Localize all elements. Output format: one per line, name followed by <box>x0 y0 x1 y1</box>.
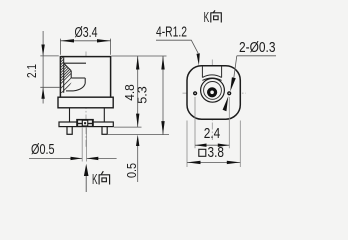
svg-text:2.1: 2.1 <box>24 64 39 78</box>
contact curve <box>74 83 86 91</box>
chamber floor line <box>71 77 85 79</box>
dim 5.3 arrows <box>161 56 164 70</box>
svg-text:2.4: 2.4 <box>204 125 221 142</box>
dim 2.4 arrows <box>195 144 207 147</box>
funnel slope <box>64 63 71 71</box>
svg-text:5.3: 5.3 <box>134 86 149 104</box>
dim 3.8 extension lines <box>187 121 240 168</box>
svg-text:3.8: 3.8 <box>208 144 225 161</box>
dim Ø0.5 arrows <box>71 157 83 160</box>
cavity bottom lip <box>66 90 74 92</box>
body outline (cylinder section) <box>60 57 110 98</box>
inner wall line <box>63 57 65 93</box>
dim 0.5 right arrow and line <box>137 146 139 182</box>
funnel arc upper <box>202 75 221 78</box>
throat wall <box>70 71 72 78</box>
arrow 4-R1.2 <box>197 53 200 65</box>
dim 4.8 line <box>137 56 139 127</box>
dim 2.1 line <box>40 31 59 104</box>
dim 3.8 square symbol <box>199 149 206 156</box>
neck left line <box>69 108 71 122</box>
centerline vertical (K view) <box>211 60 213 141</box>
centerline vertical (left view axis) <box>85 52 87 148</box>
cavity top floor line <box>64 62 86 64</box>
dim 2.4 extension lines <box>195 97 229 148</box>
centerline horizontal (K view) <box>183 92 247 94</box>
svg-text:0.5: 0.5 <box>124 163 139 178</box>
svg-text:4-R1.2: 4-R1.2 <box>156 23 187 40</box>
left pin <box>67 127 72 135</box>
base bar <box>59 122 113 127</box>
rounded square outline <box>187 66 240 119</box>
dim 3.8 line <box>187 161 240 163</box>
middle circle <box>204 82 222 100</box>
glyph 向 (bottom) <box>99 171 110 184</box>
svg-text:Ø3.4: Ø3.4 <box>75 24 98 41</box>
arrow 2-Ø0.3 lower <box>223 96 229 111</box>
K direction arrow <box>85 176 87 192</box>
slot right line <box>221 66 223 77</box>
leader 4-R1.2 <box>156 40 198 53</box>
neck right line <box>103 108 105 122</box>
dim 3.8 arrows <box>187 161 201 164</box>
dim Ø0.5 extension lines <box>82 128 86 162</box>
svg-text:K: K <box>204 9 210 26</box>
slot left line <box>201 66 203 77</box>
flange <box>58 97 113 108</box>
dim Ø0.5 line <box>29 157 117 159</box>
center contact ring <box>209 89 216 96</box>
arrow 2-Ø0.3 upper <box>230 77 236 91</box>
dim Ø3.4 line <box>60 39 110 55</box>
outer circle <box>201 78 225 102</box>
left hole <box>193 91 197 95</box>
dim 4.8 arrows <box>136 56 139 70</box>
contact right wall <box>84 78 86 83</box>
right pin <box>102 127 107 135</box>
right hole <box>227 91 231 95</box>
dim 5.3 line <box>162 56 164 135</box>
dim 2.4 line <box>195 144 229 146</box>
svg-text:Ø0.5: Ø0.5 <box>31 141 55 158</box>
glyph 向 (title) <box>210 10 221 22</box>
leader 2-Ø0.3 <box>237 55 276 57</box>
center block <box>76 119 94 127</box>
dim 2.1 arrows <box>41 45 44 56</box>
svg-text:K: K <box>92 171 98 188</box>
funnel arc lower <box>202 78 221 80</box>
dim Ø3.4 arrows <box>60 39 74 42</box>
right side extension lines <box>108 56 169 135</box>
svg-text:2-Ø0.3: 2-Ø0.3 <box>239 39 276 56</box>
